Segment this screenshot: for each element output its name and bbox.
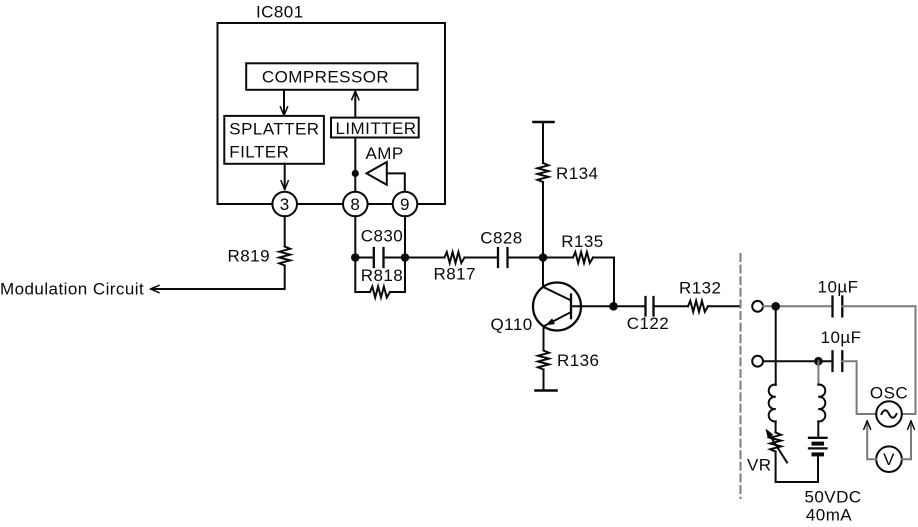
wire LIMITTER to pin 8 (354, 138, 356, 192)
wire V loop left (gray) (867, 422, 876, 459)
svg-text:LIMITTER: LIMITTER (335, 119, 416, 138)
svg-text:COMPRESSOR: COMPRESSOR (262, 68, 389, 87)
resistor R818 loop (355, 291, 405, 293)
wire left branch vertical (775, 306, 777, 385)
wire base node down to Q110 (542, 258, 544, 288)
node junction terminal2 (814, 357, 823, 366)
wire R817 to C828 (465, 257, 499, 259)
node junction C830 right (401, 253, 410, 262)
transistor Q110 base bar (570, 295, 572, 319)
IC U801 block outline IC801 (218, 23, 446, 204)
resistor R134 (538, 163, 549, 182)
svg-text:C830: C830 (361, 226, 403, 245)
svg-text:9: 9 (400, 195, 410, 214)
terminal circle bottom (752, 356, 763, 367)
wire pin 3 down (284, 216, 286, 246)
wire AMP output to pin 9 (387, 173, 405, 191)
svg-text:3: 3 (280, 195, 290, 214)
capacitor C122 (646, 297, 654, 316)
svg-text:AMP: AMP (366, 144, 404, 163)
svg-text:50VDC: 50VDC (804, 488, 861, 507)
wire coil to battery (817, 421, 819, 437)
wire pin9 node to R817 (405, 257, 445, 259)
wire right branch vertical (gray) (817, 361, 819, 385)
node junction base (539, 253, 548, 262)
battery 50VDC (809, 437, 827, 439)
wire collector node to C122 (614, 305, 646, 307)
svg-text:R818: R818 (361, 266, 403, 285)
node junction terminal1 (771, 302, 780, 311)
wire bar to R134 (542, 122, 544, 163)
svg-text:Q110: Q110 (491, 315, 533, 334)
OSC sine symbol (882, 410, 897, 417)
arrow V left up (864, 421, 871, 429)
wire pin 9 down (404, 216, 406, 292)
wire R136 to ground bar (543, 370, 545, 391)
wire C122 to R132 (654, 305, 689, 307)
ground bar bottom (536, 389, 557, 392)
wire C828 to base node (508, 257, 544, 259)
resistor R819 (279, 247, 290, 266)
resistor R136 (538, 351, 549, 370)
resistor R817 (445, 252, 465, 263)
wire terminal1 to cap1 (gray) (763, 305, 833, 307)
node junction C830 left (351, 253, 360, 262)
wire R819 to modulation circuit (152, 266, 285, 290)
svg-text:C828: C828 (480, 228, 522, 247)
wire V loop right (gray) (902, 422, 911, 459)
resistor R135 (573, 252, 593, 263)
transistor Q110 base diagonal (543, 287, 570, 300)
capacitor C830 (355, 257, 405, 259)
inductor coil left (769, 384, 776, 421)
wire collector to node (572, 305, 614, 307)
wire cap1 to right edge down to OSC (gray) (842, 306, 915, 414)
wire R135 to collector node (593, 258, 614, 307)
svg-text:R132: R132 (679, 278, 721, 297)
transistor Q110 emitter diagonal (546, 312, 571, 325)
wire cap2 to OSC (gray) (842, 361, 876, 414)
svg-text:40mA: 40mA (806, 506, 852, 525)
arrow V right up (908, 421, 915, 429)
wire arrow COMPRESSOR to SPLATTER FILTER (283, 90, 285, 115)
terminal circle top (752, 301, 763, 312)
svg-text:10µF: 10µF (818, 278, 859, 297)
block LIMITTER (331, 118, 419, 138)
svg-text:R819: R819 (228, 247, 270, 266)
wire emitter down (543, 326, 545, 351)
inductor coil right (818, 384, 825, 421)
arrow to modulation circuit (151, 285, 160, 292)
wire pin 8 down (354, 216, 356, 292)
variable resistor VR zigzag (775, 421, 777, 432)
svg-text:R134: R134 (556, 164, 598, 183)
pin 3 circle (272, 192, 297, 217)
boundary dashed line (740, 254, 742, 498)
block COMPRESSOR (246, 63, 417, 90)
capacitor 10uF bottom (833, 351, 843, 371)
oscillator OSC circle (876, 401, 902, 427)
VR arrow (768, 432, 788, 463)
voltmeter V circle (876, 446, 902, 472)
power rail bar top (534, 121, 554, 124)
capacitor 10uF top (833, 297, 843, 317)
wire terminal2 to cap2 (763, 360, 833, 362)
svg-text:R136: R136 (557, 351, 599, 370)
svg-text:V: V (883, 450, 895, 469)
node junction AMP input (352, 170, 359, 177)
svg-text:IC801: IC801 (256, 3, 304, 22)
node junction collector (609, 302, 618, 311)
block SPLATTER FILTER (224, 116, 324, 164)
svg-text:OSC: OSC (870, 383, 908, 402)
transistor Q110 circle (533, 283, 581, 331)
svg-text:FILTER: FILTER (229, 143, 289, 162)
svg-text:8: 8 (350, 195, 360, 214)
wire R132 to boundary (708, 305, 740, 307)
svg-text:Modulation Circuit: Modulation Circuit (0, 280, 144, 299)
op-amp AMP triangle (367, 162, 387, 185)
capacitor C828 (498, 248, 508, 267)
wire R134 to base node (542, 182, 544, 258)
pin 9 circle (393, 192, 418, 217)
svg-text:10µF: 10µF (821, 328, 862, 347)
resistor R132 (688, 301, 708, 312)
wire arrow SPLATTER FILTER to pin 3 (284, 164, 286, 189)
wire arrow LIMITTER to COMPRESSOR (354, 92, 356, 118)
pin 8 circle (343, 192, 368, 217)
transistor Q110 emitter arrowhead (546, 318, 556, 325)
svg-text:VR: VR (747, 456, 772, 475)
svg-text:R135: R135 (561, 232, 603, 251)
svg-text:SPLATTER: SPLATTER (229, 120, 319, 139)
svg-text:R817: R817 (434, 264, 476, 283)
svg-text:C122: C122 (627, 314, 669, 333)
wire VR to bottom (776, 452, 818, 483)
wire base node to R135 (543, 257, 573, 259)
